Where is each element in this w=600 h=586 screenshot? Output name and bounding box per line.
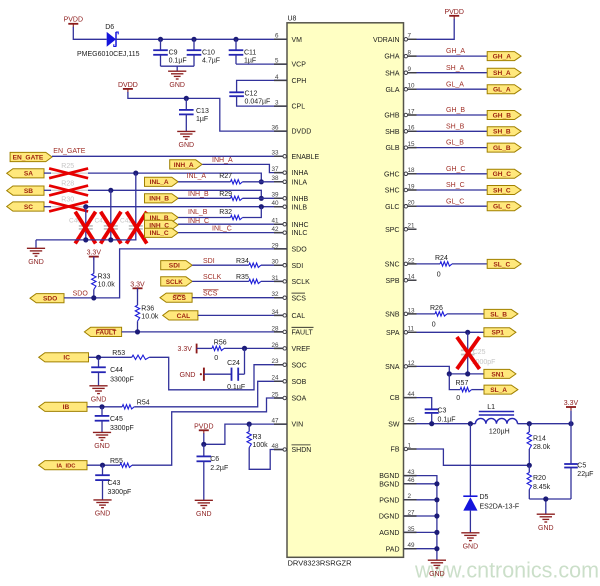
port FAULT (active low): [84, 327, 121, 336]
svg-text:SL_A: SL_A: [490, 387, 507, 394]
svg-text:120µH: 120µH: [489, 428, 510, 435]
net label GH_A: [446, 48, 465, 55]
svg-text:INLA: INLA: [292, 179, 308, 186]
svg-text:R33: R33: [98, 273, 111, 280]
svg-text:GL_A: GL_A: [446, 81, 464, 88]
svg-text:SL_B: SL_B: [490, 311, 507, 318]
net label INL_B: [188, 209, 208, 216]
svg-text:R56: R56: [214, 340, 227, 347]
pin 31 SCLK: [271, 275, 310, 286]
node junction PVDD/C6: [201, 442, 206, 447]
svg-text:R32: R32: [219, 209, 232, 216]
capacitor C10 4.7uF: [187, 39, 220, 66]
pin 38 INLA: [271, 175, 307, 186]
net label SCS: [203, 290, 219, 298]
net flag INH_C: [145, 220, 179, 229]
capacitor C41 (DNP, crossed out): [95, 190, 122, 243]
power 3.3V for R56 (sideways bar): [178, 344, 197, 354]
svg-text:FB: FB: [391, 447, 400, 454]
node junction ground bus: [434, 546, 439, 551]
svg-text:INLC: INLC: [292, 230, 308, 237]
svg-text:C5: C5: [577, 462, 586, 469]
capacitor C40 (DNP, crossed out): [69, 207, 96, 244]
net flag SN1: [484, 369, 516, 378]
node junction FB/R14/R20: [527, 463, 532, 468]
svg-text:GND: GND: [196, 511, 212, 518]
svg-text:INHA: INHA: [292, 170, 309, 177]
ground GND under C9/C10: [168, 71, 186, 89]
svg-text:3300pF: 3300pF: [110, 377, 134, 384]
svg-text:L1: L1: [487, 404, 495, 411]
node junction SC/C40: [83, 204, 88, 209]
wire SB net to INHB pin 39: [88, 190, 261, 198]
pin 19 SHC: [385, 183, 417, 194]
net flag SL_B: [484, 309, 518, 318]
pin 17 GHB: [384, 108, 416, 119]
capacitor C24 0.1uF: [204, 348, 245, 390]
svg-text:GND: GND: [95, 511, 111, 518]
svg-text:GL_A: GL_A: [493, 87, 511, 94]
resistor R24 0: [417, 255, 488, 278]
svg-text:SCS: SCS: [203, 291, 218, 298]
svg-text:PGND: PGND: [379, 497, 399, 504]
pin 11 SPA: [386, 326, 417, 337]
power DVDD supply: [118, 82, 138, 93]
wire PVDD to VIN pin 47: [204, 424, 287, 444]
resistor R54: [87, 400, 150, 410]
svg-text:R29: R29: [219, 191, 232, 198]
wire INL_C to pin 42: [178, 232, 287, 234]
pin 39 INHB: [271, 192, 308, 203]
power 3.3V for R33: [87, 250, 102, 261]
svg-text:C10: C10: [202, 50, 215, 57]
svg-text:8.45k: 8.45k: [533, 484, 551, 491]
svg-text:AGND: AGND: [379, 530, 399, 537]
svg-text:VIN: VIN: [292, 422, 304, 429]
pin 36 DVDD: [271, 125, 311, 136]
pin 6 VM: [274, 33, 302, 44]
resistor R14 28.0k: [527, 424, 551, 466]
svg-text:SHB: SHB: [385, 129, 400, 136]
net flag GH_B: [487, 111, 521, 120]
capacitor C13 1uF: [179, 98, 209, 131]
wire DVDD to C13 and pin 36: [128, 92, 287, 131]
svg-text:0: 0: [437, 271, 441, 278]
wire net GL_A: [417, 88, 488, 90]
wire DNP-cap ground rail: [36, 240, 137, 248]
net label INH_C: [188, 218, 209, 225]
node junction IB/C45: [99, 404, 104, 409]
net flag SL_C: [487, 259, 521, 268]
net flag GL_C: [487, 202, 521, 211]
node junction VM/C9: [158, 37, 163, 42]
node junction rail/C41: [108, 237, 113, 242]
svg-text:0.1µF: 0.1µF: [438, 417, 456, 424]
wire L1 to 3.3V node: [518, 423, 572, 425]
node junction ground bus: [434, 497, 439, 502]
wire net SH_C: [417, 189, 488, 191]
net flag SCLK: [161, 277, 193, 286]
wire SDO to pin 29: [64, 249, 287, 298]
net flag GH_A: [487, 52, 521, 61]
node junction VIN/R3: [247, 422, 252, 427]
node junction ground bus: [434, 481, 439, 486]
svg-text:SH_C: SH_C: [446, 182, 465, 189]
pin 37 INHA: [271, 166, 308, 177]
svg-text:CPL: CPL: [292, 104, 306, 111]
svg-text:C6: C6: [210, 456, 219, 463]
svg-text:GH_A: GH_A: [446, 48, 465, 55]
svg-text:R24: R24: [435, 255, 448, 262]
ground GND under C45: [93, 432, 111, 450]
svg-text:3.3V: 3.3V: [87, 250, 102, 257]
wire net SH_A: [417, 72, 488, 74]
wire net GH_B: [417, 114, 488, 116]
net flag SCS (active low): [160, 293, 192, 302]
svg-text:PVDD: PVDD: [444, 9, 463, 16]
resistor R30 (DNP, crossed out): [49, 196, 88, 211]
wire EN_GATE to pin 33 ENABLE: [52, 155, 287, 157]
node junction SNA/C25: [465, 371, 470, 376]
resistor R29: [178, 191, 287, 200]
node junction SB/C41: [108, 188, 113, 193]
capacitor C25 1000pF (DNP, crossed out): [457, 332, 496, 374]
pin 7 VDRAIN: [373, 33, 416, 44]
svg-text:SH_A: SH_A: [446, 65, 465, 72]
pin 2 PGND: [379, 493, 416, 504]
wire net GH_A: [417, 55, 488, 57]
capacitor C44 3300pF: [91, 357, 134, 386]
pin 46 BGND: [379, 477, 416, 488]
svg-text:SDI: SDI: [203, 258, 215, 265]
net flag GH_C: [487, 169, 521, 178]
svg-text:GL_B: GL_B: [493, 145, 511, 152]
pin 28 FAULT: [271, 325, 313, 336]
pin 23 SOC: [271, 358, 306, 369]
svg-text:INHB: INHB: [292, 196, 309, 203]
net label SH_A: [446, 65, 465, 72]
svg-text:ENABLE: ENABLE: [292, 154, 320, 161]
wire R3 to pin 48 SHDN: [249, 448, 287, 470]
svg-text:R14: R14: [533, 435, 546, 442]
wire R54 to pin 24 SOB: [134, 381, 287, 407]
wire VM rail (D6 to pin 6 VM): [116, 38, 287, 40]
node junction ground bus: [434, 513, 439, 518]
svg-text:R34: R34: [236, 258, 249, 265]
ground GND under D5: [461, 533, 479, 551]
net label SH_B: [446, 123, 465, 130]
svg-text:GL_C: GL_C: [446, 198, 464, 205]
pin 26 VREF: [271, 342, 310, 353]
svg-text:BGND: BGND: [379, 473, 399, 480]
svg-text:0.1µF: 0.1µF: [169, 58, 187, 65]
svg-text:GL_C: GL_C: [493, 204, 511, 211]
net flag SH_A: [487, 68, 521, 77]
wire PVDD to pin 7 VDRAIN: [417, 19, 455, 40]
node junction rail/C40: [83, 237, 88, 242]
wire SC to R30: [44, 206, 51, 208]
svg-text:CAL: CAL: [292, 313, 306, 320]
ground GND bar for C24: [180, 368, 204, 381]
svg-text:3.3V: 3.3V: [564, 400, 579, 407]
svg-text:PVDD: PVDD: [194, 423, 213, 430]
pin 47 VIN: [271, 418, 303, 429]
wire ground bus (BGND/PGND/DGND/AGND/PAD): [404, 476, 437, 560]
pin 18 GHC: [384, 167, 417, 178]
svg-text:DRV8323RSRGZR: DRV8323RSRGZR: [288, 558, 353, 567]
svg-text:C24: C24: [227, 360, 240, 367]
svg-text:C9: C9: [169, 50, 178, 57]
pin 10 GLA: [385, 83, 416, 94]
svg-text:GND: GND: [179, 142, 195, 149]
svg-text:SNC: SNC: [385, 262, 400, 269]
svg-text:SDI: SDI: [169, 263, 180, 270]
capacitor C6 2.2uF: [197, 444, 229, 500]
wire C11 to pin 5 VCP: [236, 63, 287, 65]
svg-text:GND: GND: [538, 525, 554, 532]
svg-text:SDO: SDO: [292, 247, 308, 254]
svg-text:GH_C: GH_C: [446, 166, 465, 173]
power PVDD (top left): [64, 17, 83, 28]
node junction SW-out/R14: [527, 421, 532, 426]
net flag SL_A: [484, 385, 518, 394]
inductor L1 120uH: [475, 404, 517, 435]
resistor R53: [89, 350, 150, 359]
net label SCLK: [203, 274, 222, 281]
svg-text:C12: C12: [245, 91, 258, 98]
pin 34 CAL: [271, 309, 305, 320]
svg-text:2.2µF: 2.2µF: [210, 465, 228, 472]
svg-text:C3: C3: [438, 407, 447, 414]
svg-text:SHDN: SHDN: [292, 447, 312, 454]
pin 49 PAD: [386, 542, 417, 553]
svg-text:DVDD: DVDD: [292, 129, 312, 136]
pin 40 INLB: [271, 200, 307, 211]
pin 8 GHA: [384, 50, 416, 61]
net label INL_A: [187, 173, 207, 180]
svg-text:SCS: SCS: [172, 295, 186, 302]
svg-text:C43: C43: [108, 480, 121, 487]
node junction gnd rail: [543, 496, 548, 501]
wire net SH_B: [417, 130, 488, 132]
net flag CAL: [163, 311, 198, 320]
svg-text:SL_C: SL_C: [493, 261, 510, 268]
resistor R28 (DNP, crossed out): [49, 180, 88, 195]
wire PVDD to D6: [73, 27, 106, 40]
svg-text:INHC: INHC: [292, 222, 309, 229]
port EN_GATE: [10, 152, 52, 161]
pin 32 SCS: [271, 291, 306, 302]
node junction DVDD/C13: [184, 96, 189, 101]
svg-text:CAL: CAL: [177, 313, 191, 320]
svg-text:R25: R25: [61, 163, 74, 170]
svg-text:22µF: 22µF: [577, 471, 593, 478]
resistor R20 8.45k: [527, 465, 551, 499]
svg-text:GLA: GLA: [385, 87, 399, 94]
node junction SW/D5: [468, 421, 473, 426]
capacitor C12 0.047uF: [229, 80, 287, 106]
ground GND under R20/C5: [537, 514, 555, 532]
net flag INH_B: [145, 194, 179, 203]
node junction VM/C11: [233, 37, 238, 42]
pin 20 GLC: [385, 200, 416, 211]
svg-text:1µF: 1µF: [196, 116, 208, 123]
resistor R36 10.0k: [135, 288, 159, 332]
svg-text:SPA: SPA: [386, 330, 400, 337]
power 3.3V (buck output): [564, 400, 579, 424]
svg-text:SNB: SNB: [385, 312, 400, 319]
svg-text:SOC: SOC: [292, 362, 307, 369]
wire CAL to pin 34: [198, 314, 287, 316]
net flag INH_A: [170, 160, 202, 169]
svg-text:SDO: SDO: [73, 290, 89, 297]
node junction SA/C42: [133, 171, 138, 176]
svg-text:SN1: SN1: [491, 371, 504, 378]
svg-text:SH_C: SH_C: [493, 187, 511, 194]
svg-text:GND: GND: [94, 443, 110, 450]
diode D6 PMEG6010CEJ,115: [77, 24, 140, 58]
svg-text:IB: IB: [63, 404, 70, 411]
node junction SPA/C25: [465, 330, 470, 335]
capacitor C45 3300pF: [95, 407, 134, 433]
svg-text:INH_B: INH_B: [188, 191, 209, 198]
svg-text:R30: R30: [61, 196, 74, 203]
svg-text:SCLK: SCLK: [292, 279, 311, 286]
net label GL_C: [446, 198, 464, 205]
svg-text:SHC: SHC: [385, 188, 400, 195]
wire SPA to SP1: [417, 331, 484, 333]
wire R20/C5 ground rail: [529, 499, 571, 514]
pin 5 VCP: [274, 58, 306, 69]
node junction IC/C44: [96, 355, 101, 360]
svg-text:INL_A: INL_A: [187, 173, 207, 180]
svg-text:INL_A: INL_A: [150, 179, 169, 186]
svg-text:INLB: INLB: [292, 204, 308, 211]
svg-text:GND: GND: [429, 571, 445, 578]
svg-text:GLC: GLC: [385, 204, 399, 211]
pin 48 SHDN: [271, 443, 311, 454]
svg-text:C25: C25: [473, 349, 486, 356]
ground GND under C13: [177, 131, 195, 149]
resistor R27: [178, 173, 287, 184]
svg-text:VREF: VREF: [292, 346, 311, 353]
net label INH_B: [188, 191, 209, 198]
net label GL_A: [446, 81, 464, 88]
pin 22 SNC: [385, 257, 417, 268]
wire SA to R25: [44, 172, 51, 174]
svg-text:IC: IC: [63, 355, 70, 362]
wire SC net to INLB pin 40: [88, 206, 287, 208]
ground GND under C6: [195, 500, 213, 518]
port IC (phase C current): [39, 353, 89, 362]
svg-text:IA_IDC: IA_IDC: [56, 464, 76, 470]
svg-text:C45: C45: [110, 416, 123, 423]
svg-text:VDRAIN: VDRAIN: [373, 37, 399, 44]
svg-text:U8: U8: [288, 16, 297, 23]
capacitor C5 22uF: [564, 424, 593, 499]
svg-text:R27: R27: [219, 173, 232, 180]
wire net GH_C: [417, 173, 488, 175]
svg-text:CPH: CPH: [292, 78, 307, 85]
resistor R33 10.0k: [92, 257, 116, 298]
svg-text:GHB: GHB: [384, 113, 400, 120]
wire FAULT to pin 28: [122, 331, 287, 333]
svg-text:INH_A: INH_A: [174, 162, 194, 169]
svg-text:SC: SC: [24, 204, 33, 211]
svg-text:GLB: GLB: [385, 145, 399, 152]
resistor R56 0: [197, 340, 287, 362]
net label SDO: [73, 290, 89, 297]
svg-text:VM: VM: [292, 37, 303, 44]
svg-text:SOB: SOB: [292, 379, 307, 386]
pin 44 CB: [390, 391, 417, 402]
capacitor C43 3300pF: [95, 465, 131, 500]
capacitor C42 (DNP, crossed out): [120, 173, 147, 243]
net flag INL_C: [145, 228, 179, 237]
net label GL_B: [446, 140, 464, 147]
pin 24 SOB: [271, 375, 306, 386]
net flag SP1: [484, 328, 516, 337]
svg-text:R3: R3: [253, 434, 262, 441]
ground GND under C43: [93, 500, 111, 518]
net label GH_B: [446, 107, 465, 114]
svg-text:GND: GND: [463, 543, 479, 550]
node junction SNA/R57: [447, 371, 452, 376]
svg-text:0: 0: [456, 395, 460, 402]
svg-text:R57: R57: [456, 380, 469, 387]
pin 21 SPC: [385, 223, 416, 234]
pin 29 SDO: [271, 242, 307, 253]
svg-text:SA: SA: [24, 171, 33, 178]
node junction ground bus: [434, 530, 439, 535]
svg-text:C11: C11: [244, 50, 256, 57]
port SC: [7, 202, 44, 211]
port SA: [7, 169, 44, 178]
wire SNA to SN1: [417, 366, 484, 374]
pin 15 GLB: [385, 141, 416, 152]
capacitor C9 0.1uF: [153, 39, 186, 66]
node junction INLA: [259, 179, 264, 184]
svg-text:GND: GND: [180, 370, 196, 379]
svg-text:D5: D5: [480, 494, 489, 501]
resistor R57 0: [449, 374, 484, 402]
port SB: [7, 186, 44, 195]
pin 16 SHB: [385, 125, 416, 136]
svg-text:C44: C44: [110, 367, 123, 374]
svg-text:INH_A: INH_A: [212, 157, 233, 164]
svg-text:FAULT: FAULT: [96, 329, 117, 336]
svg-text:BGND: BGND: [379, 481, 399, 488]
svg-text:R26: R26: [430, 305, 443, 312]
node junction SDO/R33: [91, 295, 96, 300]
svg-text:SH_B: SH_B: [446, 123, 465, 130]
port SDO: [30, 294, 64, 303]
svg-text:SDO: SDO: [43, 296, 57, 303]
svg-text:VCP: VCP: [292, 62, 307, 69]
net flag INL_B: [145, 213, 179, 222]
wire SB to R28: [44, 189, 51, 191]
svg-text:GHA: GHA: [384, 54, 400, 61]
svg-text:D6: D6: [105, 24, 114, 31]
net label SDI: [203, 258, 215, 265]
svg-text:SDI: SDI: [292, 263, 304, 270]
svg-text:INL_C: INL_C: [212, 225, 232, 232]
diode D5 ES2DA-13-F: [463, 424, 519, 533]
svg-text:GL_B: GL_B: [446, 140, 464, 147]
pin 14 SPB: [385, 274, 416, 285]
wire R55 to pin 25 SOA: [132, 398, 287, 465]
svg-text:SW: SW: [388, 421, 400, 428]
